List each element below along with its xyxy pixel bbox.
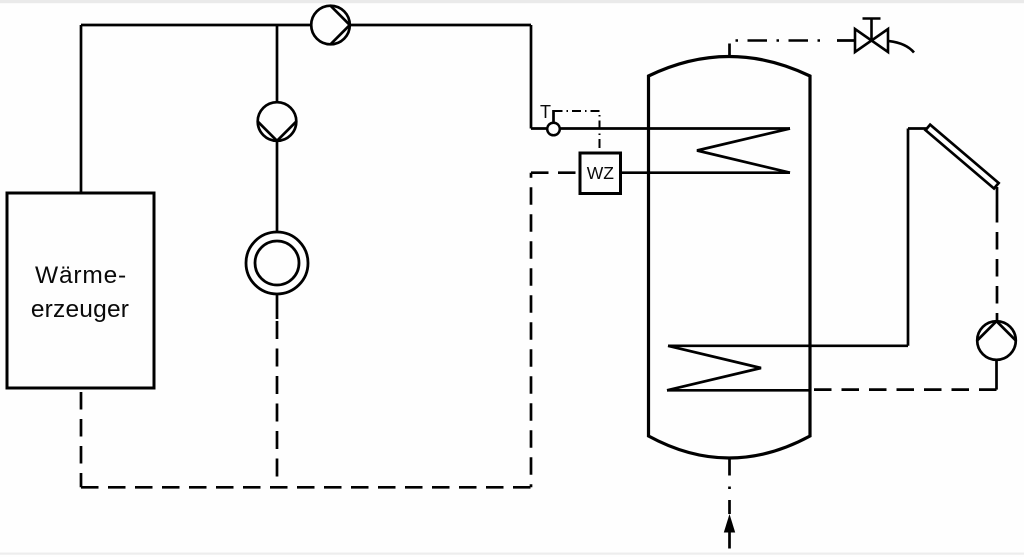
pipe: riser to collector [908, 127, 928, 130]
pipe: horizontal into tank upper coil [531, 127, 790, 130]
sensor T circle [547, 123, 560, 136]
pipe: dashed solar return to tank [814, 388, 997, 391]
pipe: solar riser vertical [907, 129, 910, 346]
sensor stub [552, 110, 555, 123]
pipe: dashed return left of WZ [531, 171, 580, 174]
pipe: WZ to tank lower line of upper coil [621, 171, 791, 174]
svg-text:Wärme-: Wärme- [35, 262, 127, 289]
pipe: dashed return bottom horizontal [81, 486, 531, 489]
pipe: dashed return from expansion vessel [276, 321, 279, 487]
tank top stub [728, 44, 731, 57]
heat meter WZ box [580, 153, 621, 194]
pipe: collector outlet stub [996, 187, 999, 205]
pipe: stub below expansion vessel [276, 294, 279, 320]
pipe: left vertical from boiler top [80, 25, 83, 193]
pipe: vertical drop to sensor T [530, 25, 533, 129]
pipe: dashed down to solar pump [996, 205, 999, 321]
dash-dot line tank top to valve [736, 39, 830, 42]
control line dash-dot from T to WZ [554, 111, 600, 153]
scan artifact bottom band [0, 553, 1024, 555]
solar collector panel [925, 125, 998, 189]
pipe: top supply line from boiler to tank drop [81, 24, 531, 27]
svg-text:erzeuger: erzeuger [31, 296, 129, 323]
pipe: dashed return up to boiler bottom [80, 392, 83, 487]
pipe: lower coil top line to solar riser [668, 344, 908, 347]
lower heating coil [667, 346, 761, 391]
solar pump P3 (flow up) [977, 321, 1016, 360]
pump P1 (top, flow right) [311, 6, 350, 45]
pipe: vertical branch to pump P2 and expansion vessel [276, 25, 279, 232]
pipe: solar pump bottom stub [995, 359, 998, 389]
pipe: dashed return vertical x=531 [530, 173, 533, 488]
svg-text:T: T [540, 102, 551, 122]
pipe: lower coil bottom line to tank wall [667, 389, 810, 392]
safety valve [855, 19, 914, 53]
cold water inlet dash-dot with arrow [724, 459, 735, 549]
heat generator box Wärmeerzeuger [7, 193, 154, 388]
upper heating coil [697, 129, 790, 173]
scan artifact top band [0, 0, 1024, 3]
expansion vessel (double circle) [246, 232, 308, 294]
svg-text:WZ: WZ [587, 163, 615, 183]
pump P2 (vertical branch, flow down) [258, 102, 297, 141]
storage tank shell [649, 57, 811, 459]
pipe: short line into valve [837, 39, 855, 42]
